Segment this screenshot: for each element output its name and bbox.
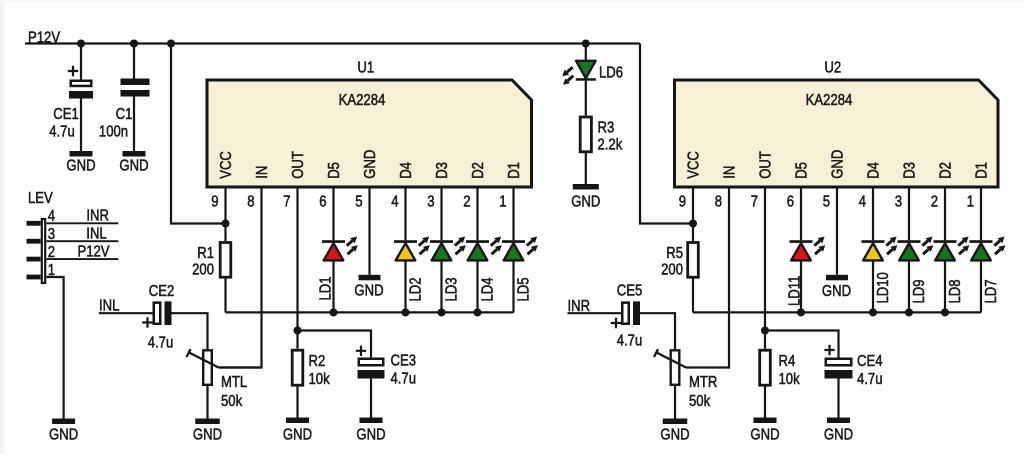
- resistor R2 10k: [292, 350, 303, 385]
- svg-text:INL: INL: [86, 225, 106, 242]
- LED LD7: [970, 240, 993, 243]
- ground MTR: [663, 419, 688, 425]
- svg-text:D4: D4: [865, 162, 882, 179]
- svg-text:LD4: LD4: [479, 277, 496, 301]
- svg-text:1: 1: [499, 193, 506, 210]
- svg-text:5: 5: [823, 193, 830, 210]
- connector LEV body: [42, 219, 45, 283]
- wire U2 pin to LD11: [800, 187, 802, 240]
- ground R4: [754, 418, 777, 424]
- capacitor CE2 4.7u: [154, 303, 161, 324]
- wire LD6 to R3: [585, 81, 587, 116]
- wire R2 to ground: [296, 387, 298, 418]
- svg-text:2: 2: [931, 193, 938, 210]
- potentiometer MTL 50k: [203, 350, 212, 385]
- svg-text:LD3: LD3: [443, 277, 460, 301]
- svg-text:OUT: OUT: [290, 151, 307, 179]
- wire U2 pin9 VCC to R5: [692, 187, 694, 241]
- wire U1 pin7 OUT down to R2: [296, 187, 298, 349]
- LED LD4: [466, 240, 489, 243]
- svg-text:GND: GND: [660, 426, 689, 443]
- wire LD11 to common: [800, 260, 802, 312]
- junction dot OUT/R2/CE3: [293, 326, 301, 334]
- svg-text:1: 1: [967, 193, 974, 210]
- wire U2 pin to LD8: [944, 187, 946, 240]
- wire CE3 to ground: [370, 379, 372, 418]
- ground U2 pin5: [826, 275, 848, 281]
- svg-text:LD8: LD8: [947, 279, 964, 303]
- svg-text:LD11: LD11: [786, 276, 803, 306]
- svg-text:GND: GND: [49, 426, 78, 443]
- junction dot U1-drop/rail: [167, 39, 175, 47]
- svg-text:D3: D3: [434, 162, 451, 179]
- svg-text:CE1: CE1: [53, 106, 79, 123]
- wire rail to LD6: [585, 44, 587, 61]
- LED LD5: [502, 240, 525, 243]
- capacitor CE3 4.7u: [356, 346, 366, 356]
- svg-text:IN: IN: [721, 166, 738, 179]
- LED LD6: [576, 61, 596, 79]
- svg-text:5: 5: [355, 193, 362, 210]
- ground LEV pin 1: [52, 419, 75, 425]
- ground MTL: [195, 419, 220, 425]
- svg-text:4: 4: [859, 193, 866, 210]
- junction dot OUT/R4/CE4: [761, 326, 769, 334]
- connector LEV pin stub 1: [27, 275, 41, 280]
- op-amp U1 KA2284: [207, 80, 532, 187]
- svg-text:KA2284: KA2284: [806, 92, 853, 109]
- svg-text:8: 8: [247, 193, 254, 210]
- svg-text:OUT: OUT: [757, 151, 774, 179]
- svg-text:LD5: LD5: [515, 277, 532, 301]
- ground C1: [123, 151, 146, 157]
- ground U1 pin5: [359, 275, 381, 281]
- wire LED common line U1: [226, 311, 514, 313]
- svg-text:D3: D3: [901, 162, 918, 179]
- wire U1 pin9 VCC to R1: [224, 187, 226, 241]
- svg-text:GND: GND: [356, 426, 385, 443]
- svg-text:GND: GND: [354, 282, 383, 299]
- LED LD1: [322, 240, 345, 243]
- svg-text:10k: 10k: [309, 371, 331, 388]
- svg-text:7: 7: [283, 193, 290, 210]
- svg-text:4.7u: 4.7u: [49, 123, 75, 140]
- svg-text:200: 200: [192, 261, 214, 278]
- svg-text:D1: D1: [506, 162, 523, 179]
- wire INR to CE5: [568, 312, 622, 314]
- resistor R1 200: [220, 243, 231, 278]
- op-amp U2 KA2284: [675, 80, 999, 187]
- svg-text:6: 6: [319, 193, 326, 210]
- svg-text:50k: 50k: [221, 393, 243, 410]
- junction dot LD1/common: [329, 308, 337, 316]
- ground CE1: [70, 151, 93, 157]
- LED LD11: [790, 240, 813, 243]
- wire R3 to ground: [585, 153, 587, 184]
- svg-text:C1: C1: [116, 106, 133, 123]
- svg-text:R1: R1: [197, 245, 214, 262]
- wire U2 pin to LD9: [908, 187, 910, 240]
- svg-text:D4: D4: [398, 162, 415, 179]
- ground R2: [286, 418, 309, 424]
- svg-text:4.7u: 4.7u: [391, 370, 417, 387]
- svg-text:8: 8: [715, 193, 722, 210]
- svg-text:4.7u: 4.7u: [617, 332, 643, 349]
- svg-text:2.2k: 2.2k: [598, 136, 623, 153]
- svg-text:LD6: LD6: [599, 64, 623, 81]
- svg-text:50k: 50k: [689, 393, 711, 410]
- svg-text:U1: U1: [357, 59, 374, 76]
- svg-text:4.7u: 4.7u: [857, 371, 883, 388]
- wire net P12V from LEV pin 2: [47, 258, 119, 260]
- capacitor CE5 4.7u: [622, 303, 629, 324]
- junction dot LD3/common: [437, 308, 445, 316]
- wire R1 to LED common: [224, 279, 226, 313]
- svg-text:MTR: MTR: [689, 374, 717, 391]
- ground CE4: [827, 418, 850, 424]
- svg-text:LD9: LD9: [911, 279, 928, 303]
- LED LD10: [862, 240, 885, 243]
- wire LEV pin 1 to ground: [47, 277, 64, 419]
- wire U2 pin to LD10: [872, 187, 874, 240]
- svg-text:GND: GND: [829, 150, 846, 179]
- capacitor CE4 4.7u: [824, 345, 834, 355]
- wire LD2 to common: [404, 260, 406, 312]
- LED LD8: [934, 240, 957, 243]
- wire U1 pin to LD3: [440, 187, 442, 240]
- connector LEV pin stub 4: [27, 221, 41, 226]
- svg-text:LEV: LEV: [28, 190, 53, 207]
- wire U2 pin5 GND: [836, 187, 838, 275]
- LED LD3: [430, 240, 453, 243]
- svg-text:MTL: MTL: [221, 374, 247, 391]
- svg-text:6: 6: [787, 193, 794, 210]
- svg-text:9: 9: [211, 193, 218, 210]
- svg-text:2: 2: [463, 193, 470, 210]
- junction dot C1/rail: [130, 39, 138, 47]
- svg-text:R4: R4: [779, 353, 796, 370]
- svg-text:7: 7: [751, 193, 758, 210]
- junction dot VCC U1: [221, 219, 229, 227]
- svg-text:GND: GND: [119, 157, 148, 174]
- svg-text:VCC: VCC: [685, 151, 702, 179]
- svg-text:GND: GND: [283, 426, 312, 443]
- svg-text:D5: D5: [793, 162, 810, 179]
- svg-text:D2: D2: [470, 162, 487, 179]
- svg-text:D1: D1: [973, 162, 990, 179]
- svg-text:3: 3: [895, 193, 902, 210]
- resistor R3 2.2k: [580, 117, 591, 152]
- wire OUT branch to CE3: [298, 331, 372, 358]
- svg-text:INR: INR: [86, 207, 109, 224]
- capacitor C1 100n: [133, 44, 135, 79]
- svg-text:100n: 100n: [99, 123, 128, 140]
- svg-text:R3: R3: [598, 119, 615, 136]
- wire U2 pin to LD7: [980, 187, 982, 240]
- svg-text:200: 200: [661, 261, 683, 278]
- svg-text:LD2: LD2: [407, 277, 424, 301]
- ground R3: [573, 184, 599, 190]
- svg-text:CE2: CE2: [149, 283, 175, 300]
- svg-text:R2: R2: [309, 353, 326, 370]
- wire LD4 to common: [476, 260, 478, 312]
- wire CE2 to MTL: [172, 313, 208, 349]
- wire U1 pin5 GND: [368, 187, 370, 275]
- wire P12V rail: [25, 42, 640, 44]
- junction dot LD11/common: [797, 308, 805, 316]
- svg-text:KA2284: KA2284: [339, 92, 386, 109]
- svg-text:CE5: CE5: [617, 282, 643, 299]
- wire U1 pin to LD5: [512, 187, 514, 240]
- svg-text:IN: IN: [254, 166, 271, 179]
- junction dot CE1/rail: [77, 39, 85, 47]
- svg-text:P12V: P12V: [77, 243, 109, 260]
- junction dot LD10/common: [869, 308, 877, 316]
- wire P12V drop to U1: [171, 44, 226, 224]
- wire R5 to LED common: [692, 279, 694, 313]
- LED LD2: [394, 240, 417, 243]
- wire LD9 to common: [908, 260, 910, 312]
- svg-text:CE3: CE3: [391, 352, 417, 369]
- wire CE5 to MTR: [640, 313, 675, 349]
- wire OUT branch to CE4: [765, 331, 839, 358]
- svg-text:LD1: LD1: [317, 276, 334, 300]
- wire MTR to ground: [674, 386, 676, 419]
- svg-text:D5: D5: [326, 162, 343, 179]
- svg-text:U2: U2: [824, 59, 841, 76]
- junction dot LD9/common: [905, 308, 913, 316]
- svg-text:D2: D2: [937, 162, 954, 179]
- connector LEV pin stub 2: [27, 257, 41, 262]
- wire LD10 to common: [872, 260, 874, 312]
- wire U1 pin8 IN down: [219, 187, 262, 368]
- junction dot LD8/common: [941, 308, 949, 316]
- wire MTL to ground: [206, 386, 208, 419]
- wire LD5 to common: [512, 260, 514, 312]
- svg-text:GND: GND: [822, 283, 851, 300]
- wire MTL wiper to U1 pin8: [219, 366, 262, 368]
- connector LEV pin stub 3: [27, 239, 41, 244]
- wire INL to CE2: [99, 312, 153, 314]
- wire R4 to ground: [764, 387, 766, 418]
- wire LD1 to common: [332, 260, 334, 312]
- wire LD3 to common: [440, 260, 442, 312]
- resistor R4 10k: [760, 350, 771, 385]
- wire net INR from LEV pin 4: [47, 222, 119, 224]
- svg-text:3: 3: [427, 193, 434, 210]
- resistor R5 200: [688, 243, 699, 278]
- svg-text:GND: GND: [750, 426, 779, 443]
- potentiometer MTR 50k: [671, 350, 680, 385]
- svg-text:LD7: LD7: [983, 279, 1000, 303]
- svg-text:10k: 10k: [779, 371, 801, 388]
- svg-text:R5: R5: [666, 245, 683, 262]
- wire U1 pin to LD2: [404, 187, 406, 240]
- capacitor CE1 4.7u electrolytic: [80, 44, 82, 80]
- svg-text:4.7u: 4.7u: [148, 334, 174, 351]
- svg-text:GND: GND: [193, 426, 222, 443]
- wire U1 pin to LD4: [476, 187, 478, 240]
- svg-text:LD10: LD10: [875, 272, 892, 303]
- junction dot LD6/rail: [582, 39, 590, 47]
- wire P12V rail drop to U2: [640, 44, 693, 224]
- wire net INL from LEV pin 3: [47, 240, 119, 242]
- svg-text:9: 9: [679, 193, 686, 210]
- junction dot VCC U2: [689, 219, 697, 227]
- wire U2 pin7 OUT down to R4: [764, 187, 766, 349]
- svg-text:GND: GND: [66, 157, 95, 174]
- svg-text:VCC: VCC: [218, 151, 235, 179]
- wire CE4 to ground: [837, 379, 839, 418]
- wire U1 pin to LD1: [332, 187, 334, 240]
- wire U2 pin8 IN down: [686, 187, 729, 368]
- wire LD8 to common: [944, 260, 946, 312]
- junction dot LD4/common: [473, 308, 481, 316]
- svg-text:4: 4: [391, 193, 398, 210]
- svg-text:GND: GND: [362, 150, 379, 179]
- LED LD9: [898, 240, 921, 243]
- ground CE3: [360, 418, 383, 424]
- junction dot LD2/common: [401, 308, 409, 316]
- svg-text:CE4: CE4: [857, 353, 883, 370]
- svg-text:GND: GND: [571, 193, 600, 210]
- svg-text:GND: GND: [824, 426, 853, 443]
- wire LD7 to common: [980, 260, 982, 312]
- wire LED common line U2: [693, 311, 981, 313]
